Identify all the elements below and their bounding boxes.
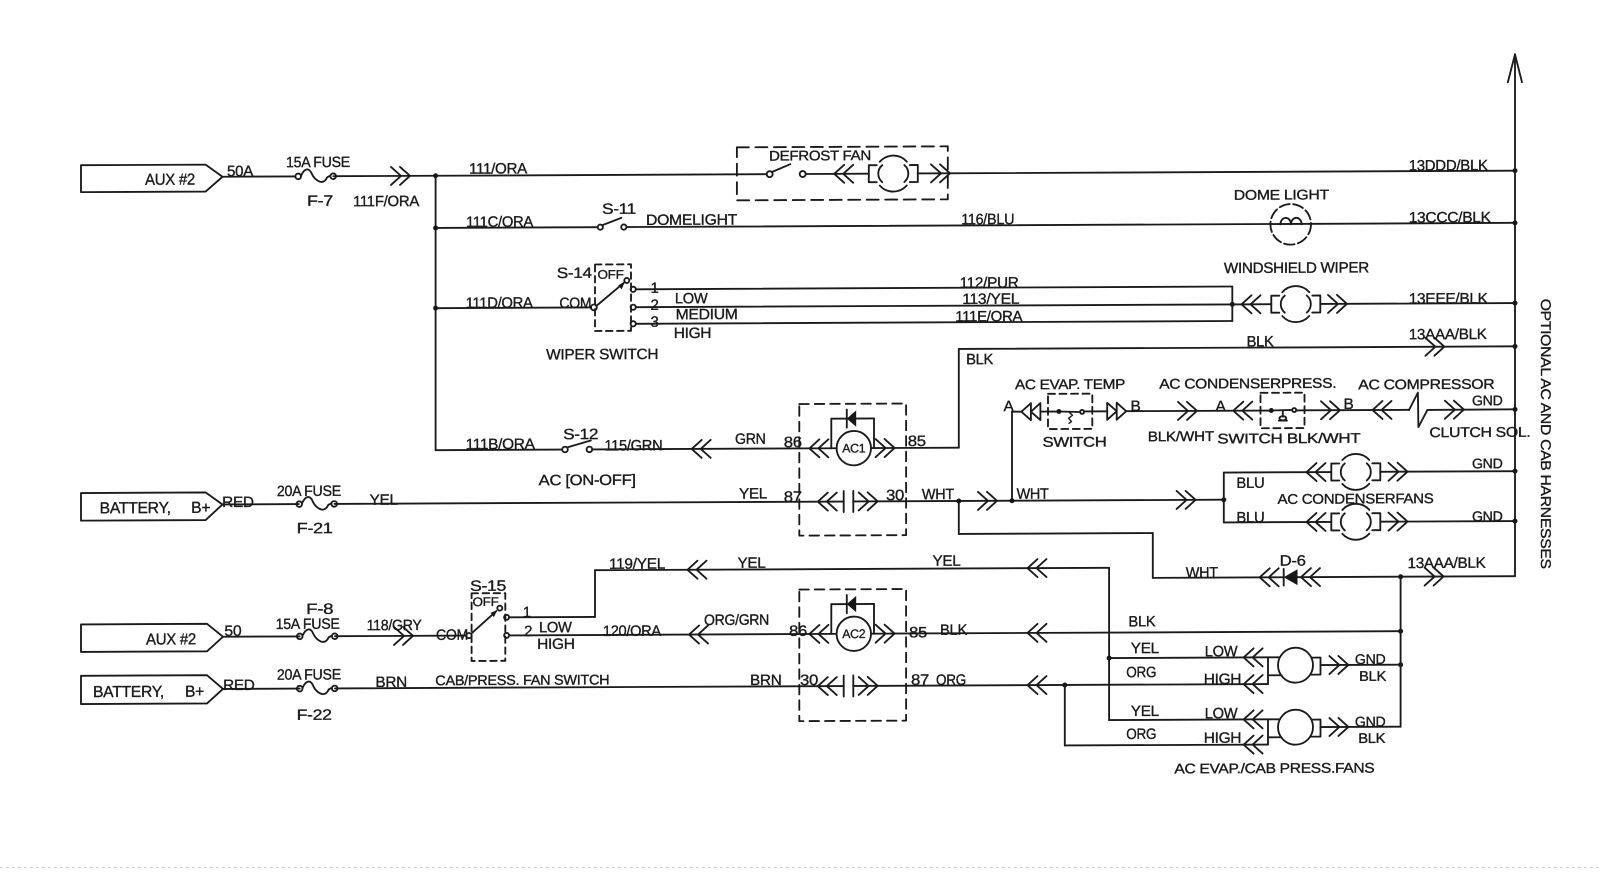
wire connector to wiper motor xyxy=(1232,303,1271,305)
wire vertical BLK 85 drop xyxy=(958,349,960,448)
AC condenser fan motor 2 xyxy=(1331,504,1380,540)
relay AC1 suppression diode xyxy=(847,410,856,426)
node junction WHT at condenser fan bracket xyxy=(1221,497,1226,502)
svg-text:1: 1 xyxy=(523,604,531,621)
svg-text:AC COMPRESSOR: AC COMPRESSOR xyxy=(1358,376,1494,393)
connector chevrons after D-6 xyxy=(1301,568,1320,586)
fuse F-7 xyxy=(295,169,336,182)
connector chevrons (press switch out) xyxy=(1321,401,1340,419)
connector triangles (A to temp switch) xyxy=(1021,403,1040,420)
svg-text:S-11: S-11 xyxy=(602,201,636,218)
svg-text:DOME LIGHT: DOME LIGHT xyxy=(1234,186,1330,202)
wire fan2 to GND riser xyxy=(1321,726,1401,728)
svg-text:LOW: LOW xyxy=(1205,705,1239,722)
svg-text:B+: B+ xyxy=(185,684,204,701)
connector chevrons 13AAA bottom xyxy=(1425,567,1444,585)
relay AC1 coil xyxy=(837,431,871,466)
wire fan2 HIGH jog xyxy=(1267,737,1269,744)
svg-text:AC1: AC1 xyxy=(842,441,865,455)
connector flag BATTERY B+ (upper) xyxy=(81,492,223,520)
svg-text:116/BLU: 116/BLU xyxy=(961,211,1014,228)
svg-text:YEL: YEL xyxy=(739,485,767,502)
svg-text:13AAA/BLK: 13AAA/BLK xyxy=(1408,555,1486,572)
wire fan1 HIGH jog xyxy=(1267,675,1269,684)
svg-text:15A FUSE: 15A FUSE xyxy=(276,616,340,633)
wire 111/ORA to defrost fan box xyxy=(436,174,767,176)
svg-text:RED: RED xyxy=(222,494,254,511)
svg-text:WHT: WHT xyxy=(1017,486,1049,503)
wire S-15 contact 1 to 119/YEL riser xyxy=(509,616,595,618)
connector triangles (temp switch to B) xyxy=(1107,403,1126,420)
switch in defrost fan circuit xyxy=(767,171,773,177)
svg-text:BRN: BRN xyxy=(375,674,407,691)
wire YEL to fan1 LOW xyxy=(1109,656,1268,659)
svg-text:AC CONDENSERPRESS.: AC CONDENSERPRESS. xyxy=(1159,375,1336,392)
svg-text:87: 87 xyxy=(784,489,802,506)
switch S-12 (AC on-off) xyxy=(562,447,568,453)
switch S-15 OFF contact xyxy=(497,606,502,611)
relay AC2 coil xyxy=(837,616,871,651)
diode D-6 xyxy=(1284,569,1298,585)
svg-text:LOW: LOW xyxy=(675,290,709,307)
svg-text:ORG: ORG xyxy=(1126,726,1156,743)
node junction WHT at BLK drop xyxy=(956,498,961,503)
switch S-14 blade with arrow xyxy=(596,283,624,306)
wire vertical YEL distribution xyxy=(1108,568,1110,720)
svg-text:111D/ORA: 111D/ORA xyxy=(466,295,533,312)
svg-text:F-21: F-21 xyxy=(297,520,333,537)
svg-text:GND: GND xyxy=(1472,392,1503,408)
svg-text:HIGH: HIGH xyxy=(537,636,575,653)
wire vertical GND/BLK riser xyxy=(1400,577,1402,727)
wire optional harness bus vertical xyxy=(1514,54,1516,576)
fuse F-22 xyxy=(297,681,338,694)
connector chevrons before D-6 xyxy=(1260,568,1279,586)
wire 111D/ORA to wiper switch COM xyxy=(436,306,591,309)
defrost fan enclosure (dashed) xyxy=(737,146,948,200)
svg-text:LOW: LOW xyxy=(539,619,573,636)
node junction 111D/ORA xyxy=(433,306,438,311)
wire condenser fan 2 to GND xyxy=(1380,520,1515,523)
node junction 13CCC/BLK at harness xyxy=(1513,220,1518,225)
svg-text:COM: COM xyxy=(436,627,468,644)
node junction wiper connector xyxy=(1230,302,1235,307)
svg-text:BLU: BLU xyxy=(1236,509,1264,526)
AC evap/cab press fan motor 2 xyxy=(1278,710,1313,745)
wire vertical bus 111 (orange feed) xyxy=(435,176,437,450)
wire condenser fan 1 to GND xyxy=(1380,470,1515,473)
svg-text:HIGH: HIGH xyxy=(1204,671,1242,688)
relay AC2 suppression diode xyxy=(847,596,856,612)
node junction YEL at fan1 LOW xyxy=(1107,656,1112,661)
svg-text:WHT: WHT xyxy=(1186,564,1218,581)
relay AC2 enclosure (dashed) xyxy=(799,589,906,721)
connector chevrons fan1 GND xyxy=(1329,656,1348,674)
svg-text:BLK: BLK xyxy=(1358,730,1386,746)
svg-text:D-6: D-6 xyxy=(1280,553,1306,570)
svg-text:ORG/GRN: ORG/GRN xyxy=(704,612,769,629)
connector chevrons (clutch to gnd) xyxy=(1445,401,1464,419)
svg-text:113/YEL: 113/YEL xyxy=(962,291,1019,308)
wire BLU to condenser fan 1 xyxy=(1224,471,1332,474)
svg-text:111B/ORA: 111B/ORA xyxy=(466,436,535,453)
condenser fan bracket vertical xyxy=(1223,473,1225,523)
page artifact: faint perforation line at bottom xyxy=(0,867,1600,869)
wire BRN battery to relay AC2 pin 30 xyxy=(223,688,300,690)
fuse F-8 xyxy=(297,629,338,642)
switch S-15 blade with arrow xyxy=(471,611,496,634)
wire 111B/ORA to switch S-12 xyxy=(436,449,563,452)
wire 111C/ORA to switch S-11 xyxy=(436,226,598,229)
node junction ORG split xyxy=(1062,682,1067,687)
relay AC2 suppression diode loop xyxy=(831,603,874,605)
svg-text:GND: GND xyxy=(1472,455,1503,471)
switch S-15 common contact xyxy=(466,633,471,638)
svg-text:GND: GND xyxy=(1472,508,1503,524)
svg-text:20A FUSE: 20A FUSE xyxy=(277,483,341,500)
connector chevrons on GRN wire xyxy=(692,440,711,458)
relay AC1 enclosure (dashed) xyxy=(799,404,906,536)
wire 120/ORA S-15 contact 2 to relay AC2 pin 86 xyxy=(509,634,835,636)
wire 115/GRN to relay AC1 pin 86 xyxy=(592,448,837,449)
wire relay AC2 pin 85 BLK to harness junction xyxy=(871,631,1401,633)
svg-text:112/PUR: 112/PUR xyxy=(960,274,1019,291)
svg-text:GRN: GRN xyxy=(735,431,766,448)
svg-text:85: 85 xyxy=(908,433,926,450)
svg-text:DEFROST FAN: DEFROST FAN xyxy=(769,147,871,163)
svg-text:BLU: BLU xyxy=(1236,475,1264,492)
svg-text:13DDD/BLK: 13DDD/BLK xyxy=(1409,157,1488,174)
svg-text:AUX #2: AUX #2 xyxy=(146,631,196,648)
svg-text:2: 2 xyxy=(524,623,532,640)
svg-text:S-14: S-14 xyxy=(557,265,592,282)
connector chevrons into pressure switch xyxy=(1233,402,1252,420)
node junction 111C/ORA xyxy=(433,225,438,230)
connector chevrons fan1 HIGH xyxy=(1244,675,1263,693)
svg-text:BATTERY,: BATTERY, xyxy=(93,684,164,701)
relay AC1 suppression diode loop xyxy=(831,417,874,419)
node junction fan1 GND xyxy=(1398,662,1403,667)
connector flag AUX #2 (lower) xyxy=(81,624,223,652)
wire WHT relay AC1 pin 30 out xyxy=(853,500,1224,502)
svg-text:COM: COM xyxy=(559,295,591,312)
switch S-14 common contact xyxy=(591,304,597,310)
svg-text:S-12: S-12 xyxy=(563,426,598,443)
wire WHT to diode D-6 xyxy=(1153,576,1284,579)
wire BLU to condenser fan 2 xyxy=(1224,521,1332,524)
node junction compressor GND at harness xyxy=(1513,407,1518,412)
svg-text:WINDSHIELD WIPER: WINDSHIELD WIPER xyxy=(1224,259,1369,277)
connector chevrons 120/ORA xyxy=(689,625,708,643)
svg-text:YEL: YEL xyxy=(738,555,766,572)
svg-text:AC EVAP. TEMP: AC EVAP. TEMP xyxy=(1015,376,1125,393)
connector chevrons 119/YEL 2 xyxy=(1028,559,1047,577)
AC condenser pressure switch contacts xyxy=(1269,408,1274,413)
svg-text:OFF: OFF xyxy=(598,268,625,282)
wire BLK (relay AC1 85 to harness 13AAA/BLK) xyxy=(959,346,1515,349)
wire 111E/ORA (wiper high) xyxy=(636,321,1233,324)
svg-text:BLK: BLK xyxy=(940,622,967,639)
svg-text:F-7: F-7 xyxy=(307,193,333,210)
svg-text:AC EVAP./CAB PRESS.FANS: AC EVAP./CAB PRESS.FANS xyxy=(1174,760,1374,777)
svg-text:YEL: YEL xyxy=(370,492,398,509)
svg-text:WHT: WHT xyxy=(922,486,954,503)
connector chevrons fan2 GND xyxy=(1329,718,1348,736)
wire 113/YEL (wiper medium) xyxy=(636,304,1233,307)
svg-text:BATTERY,: BATTERY, xyxy=(100,500,171,517)
svg-text:118/GRY: 118/GRY xyxy=(367,617,422,634)
svg-text:GND: GND xyxy=(1355,713,1386,729)
wire vertical WHT to A xyxy=(1011,412,1013,501)
svg-text:BLK: BLK xyxy=(1247,333,1274,350)
lamp DOME LIGHT xyxy=(1270,204,1311,245)
svg-text:BLK/WHT: BLK/WHT xyxy=(1148,428,1215,444)
wire 119/YEL xyxy=(595,568,1109,570)
svg-text:AC [ON-OFF]: AC [ON-OFF] xyxy=(539,472,636,489)
node junction condenser fan 1 GND xyxy=(1513,469,1518,474)
switch S-15 enclosure (dashed) xyxy=(472,593,506,661)
svg-text:115/GRN: 115/GRN xyxy=(604,437,662,454)
svg-text:YEL: YEL xyxy=(1131,640,1159,657)
wire relay AC1 pin 85 to BLK xyxy=(871,447,959,449)
wire clutch sol to GND harness xyxy=(1427,408,1515,411)
svg-text:AC2: AC2 xyxy=(842,627,865,641)
connector chevrons 118/GRY xyxy=(394,627,413,645)
svg-text:120/ORA: 120/ORA xyxy=(603,623,661,640)
switch S-14 contact 1 xyxy=(631,287,636,292)
svg-text:B: B xyxy=(1344,396,1354,413)
wire D-6 to harness 13AAA/BLK (bottom) xyxy=(1298,576,1516,577)
svg-text:13CCC/BLK: 13CCC/BLK xyxy=(1409,209,1491,226)
svg-text:BRN: BRN xyxy=(750,672,782,689)
svg-text:2: 2 xyxy=(651,297,659,314)
connector chevrons fan1 LOW xyxy=(1244,648,1263,666)
svg-text:B: B xyxy=(1131,398,1141,415)
node junction condenser fan 2 GND xyxy=(1513,519,1518,524)
connector chevrons WHT 2 xyxy=(1177,491,1196,509)
harness bus arrow head xyxy=(1508,54,1515,82)
svg-text:GND: GND xyxy=(1355,651,1386,667)
svg-text:B+: B+ xyxy=(191,500,210,517)
connector chevrons on wire 111F/ORA xyxy=(391,167,410,185)
svg-text:SWITCH: SWITCH xyxy=(1043,433,1107,449)
svg-text:13EEE/BLK: 13EEE/BLK xyxy=(1409,290,1488,307)
node junction 13AAA/BLK at harness xyxy=(1513,344,1518,349)
wire YEL to fan2 LOW xyxy=(1109,718,1268,721)
wire pressure switch B to compressor clutch xyxy=(1305,409,1410,411)
AC condenser fan motor 1 xyxy=(1331,454,1380,490)
wire fuse F-7 to node 111/ORA xyxy=(334,175,436,177)
connector flag BATTERY B+ (lower) xyxy=(81,675,223,704)
svg-text:ORG: ORG xyxy=(1126,664,1156,681)
svg-text:WIPER SWITCH: WIPER SWITCH xyxy=(546,346,658,364)
svg-text:OFF: OFF xyxy=(473,595,500,609)
svg-text:13AAA/BLK: 13AAA/BLK xyxy=(1409,326,1487,343)
connector flag AUX #2 (top) xyxy=(81,165,223,193)
wire 118/GRY to switch S-15 xyxy=(223,635,300,637)
wire defrost fan motor to harness 13DDD/BLK xyxy=(918,171,1515,174)
svg-text:S-15: S-15 xyxy=(470,578,506,595)
svg-text:YEL: YEL xyxy=(933,553,961,570)
connector chevrons WHT 1 xyxy=(978,492,997,510)
wire 116/BLU to dome light xyxy=(626,223,1515,227)
switch S-14 OFF contact xyxy=(624,278,629,283)
svg-text:111F/ORA: 111F/ORA xyxy=(353,193,419,210)
svg-text:OPTIONAL AC AND CAB HARNESSES: OPTIONAL AC AND CAB HARNESSES xyxy=(1538,299,1554,569)
node junction D-6 output xyxy=(1398,574,1403,579)
wire ORG drop to fan2 HIGH xyxy=(1064,685,1066,746)
connector chevrons fan2 LOW xyxy=(1244,710,1263,728)
wire wiper motor to harness 13EEE/BLK xyxy=(1320,302,1515,305)
wire B to pressure switch A xyxy=(1126,410,1269,413)
wire node A to temp switch xyxy=(1012,411,1048,413)
svg-text:YEL: YEL xyxy=(1131,703,1159,720)
svg-text:85: 85 xyxy=(909,624,927,641)
svg-text:111C/ORA: 111C/ORA xyxy=(466,214,533,231)
AC condenser pressure switch enclosure (dashed) xyxy=(1261,393,1305,429)
switch S-11 (domelight) xyxy=(598,225,603,230)
switch S-14 contact 2 xyxy=(631,305,636,310)
svg-text:BLK: BLK xyxy=(966,351,993,368)
wire fan1 to GND xyxy=(1321,664,1401,666)
svg-text:RED: RED xyxy=(223,677,255,694)
node junction 13DDD/BLK at harness xyxy=(1513,168,1518,173)
svg-text:A: A xyxy=(1216,398,1226,415)
AC evap temp switch contacts xyxy=(1048,411,1057,413)
svg-text:SWITCH BLK/WHT: SWITCH BLK/WHT xyxy=(1217,430,1361,447)
switch S-14 wiper switch enclosure (dashed) xyxy=(595,264,631,331)
svg-text:30: 30 xyxy=(800,672,818,689)
svg-text:BLK: BLK xyxy=(1359,668,1387,684)
svg-text:111E/ORA: 111E/ORA xyxy=(955,308,1022,325)
wire AUX#2 to fuse F-7 xyxy=(223,175,296,177)
connector chevrons 119/YEL 1 xyxy=(688,561,707,579)
switch S-15 contact 1 xyxy=(504,615,509,620)
connector chevrons BLK/WHT out xyxy=(1178,402,1197,420)
node junction 111/ORA bus top xyxy=(433,173,438,178)
svg-text:15A FUSE: 15A FUSE xyxy=(286,154,350,171)
connector chevrons BLK (AC2 85) xyxy=(1028,624,1047,642)
svg-text:111/ORA: 111/ORA xyxy=(469,160,527,177)
defrost fan motor M xyxy=(869,155,918,191)
svg-text:HIGH: HIGH xyxy=(1204,730,1242,747)
connector chevrons (to clutch) xyxy=(1373,401,1392,419)
AC compressor clutch solenoid (zigzag) xyxy=(1409,393,1427,428)
connector chevrons on 13AAA/BLK wire xyxy=(1425,338,1444,356)
svg-text:3: 3 xyxy=(651,314,659,331)
connector chevrons ORG xyxy=(1028,676,1047,694)
wire switch to defrost fan motor xyxy=(806,173,869,175)
svg-text:HIGH: HIGH xyxy=(674,325,712,342)
svg-text:20A FUSE: 20A FUSE xyxy=(277,666,341,683)
wiper connector vertical xyxy=(1231,286,1233,321)
wire 112/PUR (wiper low) xyxy=(636,286,1233,289)
svg-text:CAB/PRESS. FAN SWITCH: CAB/PRESS. FAN SWITCH xyxy=(435,671,609,688)
svg-text:MEDIUM: MEDIUM xyxy=(676,306,738,323)
relay AC2 contact xyxy=(818,677,837,695)
AC evap/cab press fan motor 1 xyxy=(1278,648,1313,683)
wire YEL battery to relay AC1 pin 87 xyxy=(223,503,299,505)
relay AC1 contact xyxy=(818,493,837,511)
fuse F-21 xyxy=(296,497,337,510)
svg-text:BLK: BLK xyxy=(1128,613,1155,630)
windshield wiper motor M xyxy=(1271,286,1320,322)
svg-text:ORG: ORG xyxy=(936,672,966,689)
connector chevrons fan2 HIGH xyxy=(1244,736,1263,754)
wire ORG relay AC2 pin 87 to evap fan 1 HIGH xyxy=(853,684,1268,686)
svg-text:LOW: LOW xyxy=(1205,643,1239,660)
switch S-15 contact 2 xyxy=(504,633,509,638)
node junction WHT at A drop xyxy=(1010,498,1015,503)
wire WHT drop and jog xyxy=(958,501,960,534)
svg-text:86: 86 xyxy=(789,623,807,640)
svg-text:119/YEL: 119/YEL xyxy=(609,556,665,573)
AC evap temp switch enclosure (dashed) xyxy=(1048,394,1092,429)
switch S-14 contact 3 xyxy=(631,321,636,326)
svg-text:AUX #2: AUX #2 xyxy=(145,172,195,189)
svg-text:F-22: F-22 xyxy=(297,707,332,724)
node junction 13EEE/BLK at harness xyxy=(1513,301,1518,306)
node junction BLK at vertical xyxy=(1398,629,1403,634)
